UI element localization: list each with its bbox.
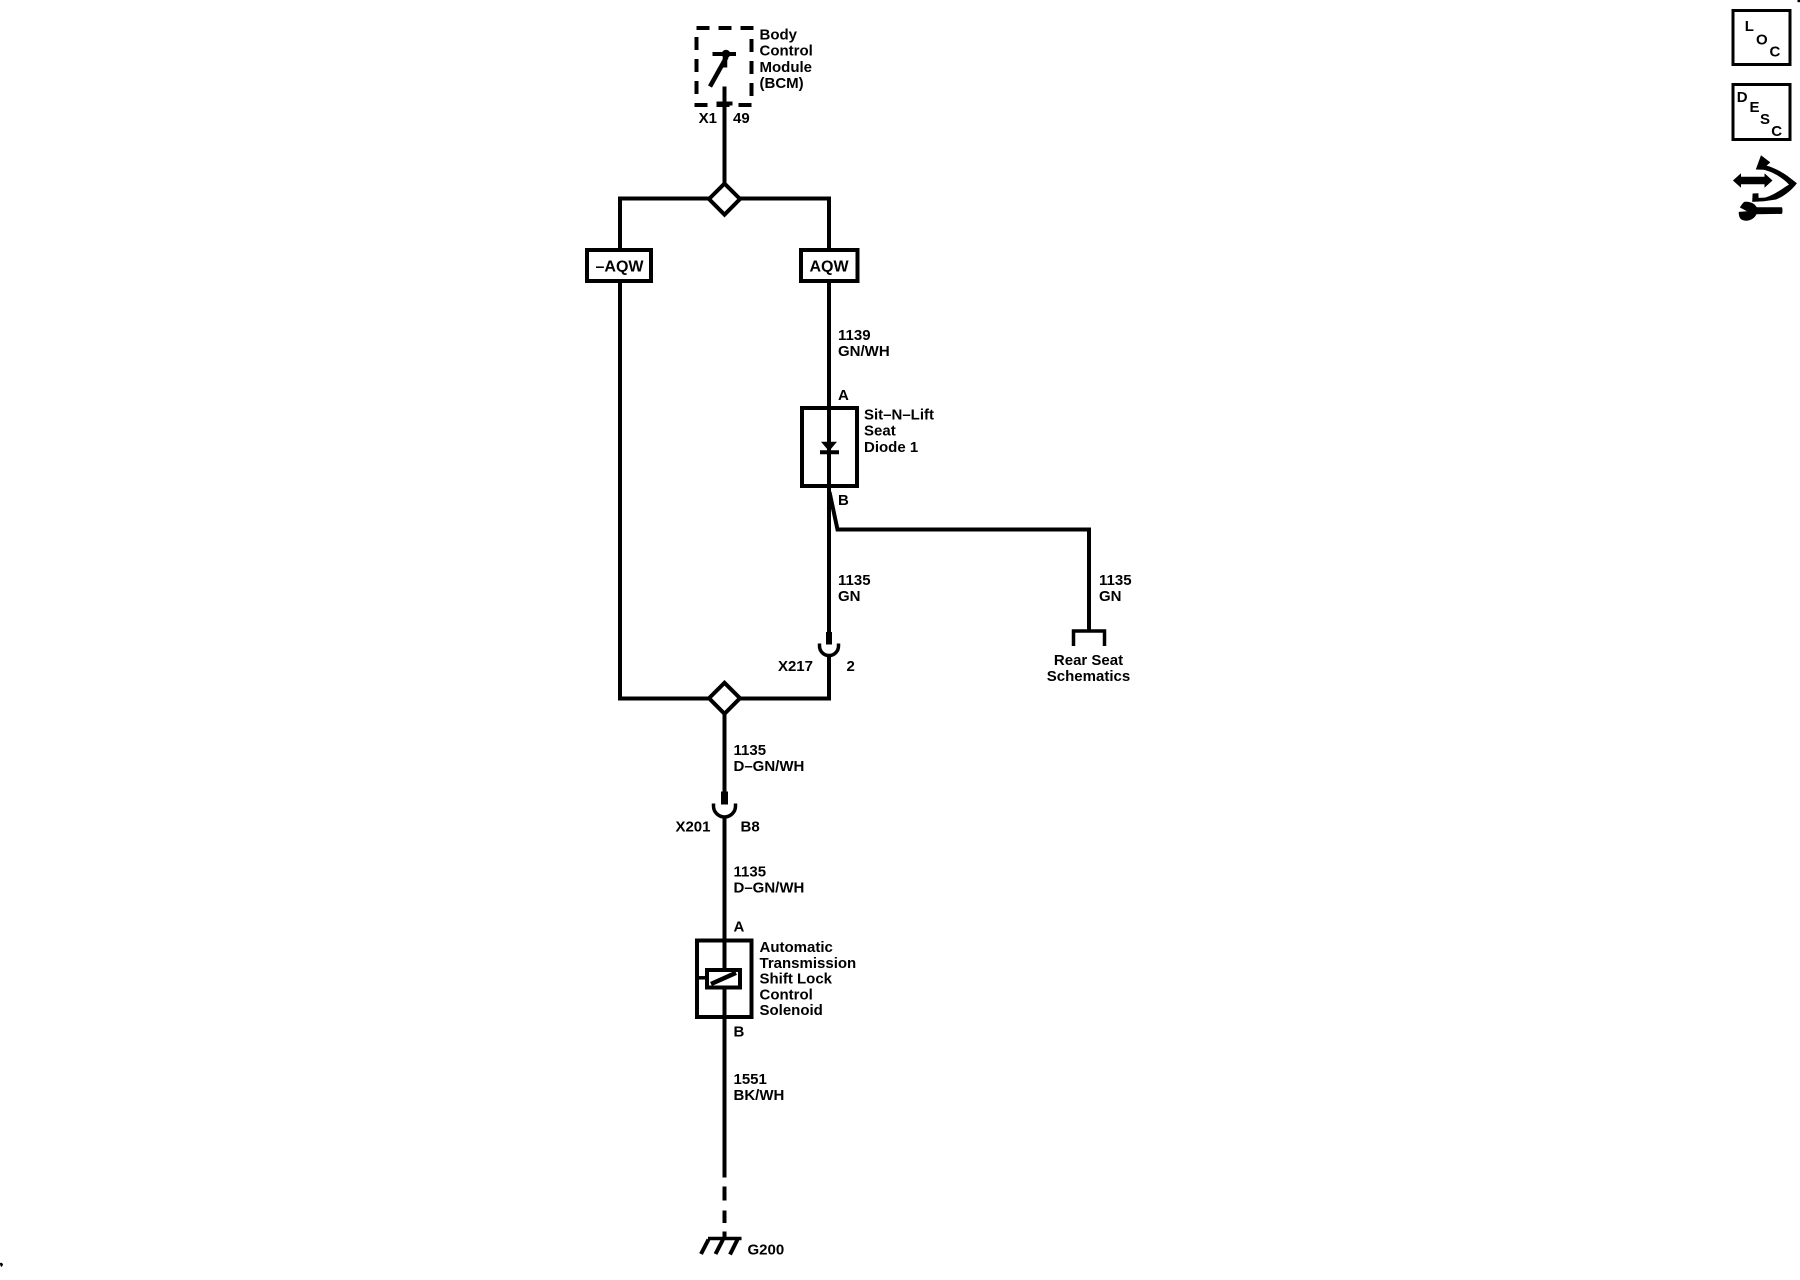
svg-text:2: 2: [847, 658, 855, 675]
wire: diode to X217: [827, 486, 831, 633]
solenoid L1 box (A/T Shift Lock Control Solenoid): [697, 941, 752, 1018]
wire through solenoid box: [723, 941, 727, 1017]
wire: X217 down to bottom junction: [740, 656, 830, 699]
svg-text:L: L: [1745, 18, 1754, 35]
corner mark: [0, 1263, 3, 1267]
svg-text:O: O: [1756, 32, 1768, 49]
Body Control Module U1 (dashed box): [697, 28, 752, 105]
connector X201 pin B8 (inline splice): [714, 792, 736, 818]
svg-text:S: S: [1760, 111, 1770, 128]
wire: top horizontal right of junction: [740, 199, 830, 252]
svg-text:X201: X201: [675, 819, 710, 836]
LOC legend box: [1733, 11, 1790, 65]
fuse label box -AQW: [587, 250, 651, 281]
diode D1 box (Sit-N-Lift Seat Diode 1): [802, 408, 857, 486]
wire: BCM pin X1-49 down to top junction: [723, 87, 727, 185]
svg-text:B: B: [838, 492, 849, 509]
wire: right branch AQW box to diode: [827, 281, 831, 408]
svg-text:49: 49: [733, 110, 750, 127]
svg-text:–AQW: –AQW: [596, 259, 645, 276]
wrench: [1739, 202, 1783, 221]
wire: left branch down to bottom junction: [620, 281, 710, 699]
wire: bottom junction to X201: [723, 714, 727, 793]
svg-text:D: D: [1737, 89, 1748, 106]
svg-text:C: C: [1770, 44, 1781, 61]
svg-text:E: E: [1750, 99, 1760, 116]
svg-text:X217: X217: [778, 658, 813, 675]
switch contact inside BCM: [710, 50, 736, 87]
svg-text:B8: B8: [741, 819, 760, 836]
wire through diode box: [827, 408, 831, 486]
junction diamond (bottom splice): [709, 683, 740, 714]
wire: branch jog to rear seat schematics: [830, 492, 1090, 632]
svg-text:G200: G200: [748, 1242, 785, 1259]
svg-text:Rear SeatSchematics: Rear SeatSchematics: [1047, 652, 1130, 685]
ground G200 symbol: [701, 1239, 742, 1255]
svg-text:C: C: [1771, 123, 1782, 140]
wire: solenoid down (solid): [723, 1017, 727, 1178]
svg-text:B: B: [734, 1024, 745, 1041]
svg-text:A: A: [838, 387, 849, 404]
DESC legend box: [1733, 85, 1790, 140]
pin tick at BCM box edge: [717, 102, 733, 106]
svg-text:X1: X1: [699, 110, 717, 127]
solenoid coil symbol: [698, 970, 740, 988]
svg-text:AQW: AQW: [809, 259, 849, 276]
connector X217 pin 2 (inline splice): [820, 632, 839, 656]
corner mark top-right: [1798, 0, 1800, 2]
svg-text:A: A: [734, 919, 745, 936]
navigation icon (double arrow, curved arrow, wrench): [1733, 155, 1797, 220]
diode symbol: [821, 442, 837, 452]
off-page connector bracket (Rear Seat Schematics): [1074, 631, 1105, 646]
wire: dashed segment to ground: [723, 1187, 727, 1239]
wire: top horizontal left of junction: [620, 199, 710, 252]
wire: X201 to solenoid: [723, 817, 727, 942]
curved arrow: [1752, 155, 1797, 202]
junction diamond (top splice): [709, 184, 740, 215]
double-headed arrow: [1733, 173, 1773, 187]
fuse label box AQW: [801, 250, 858, 281]
